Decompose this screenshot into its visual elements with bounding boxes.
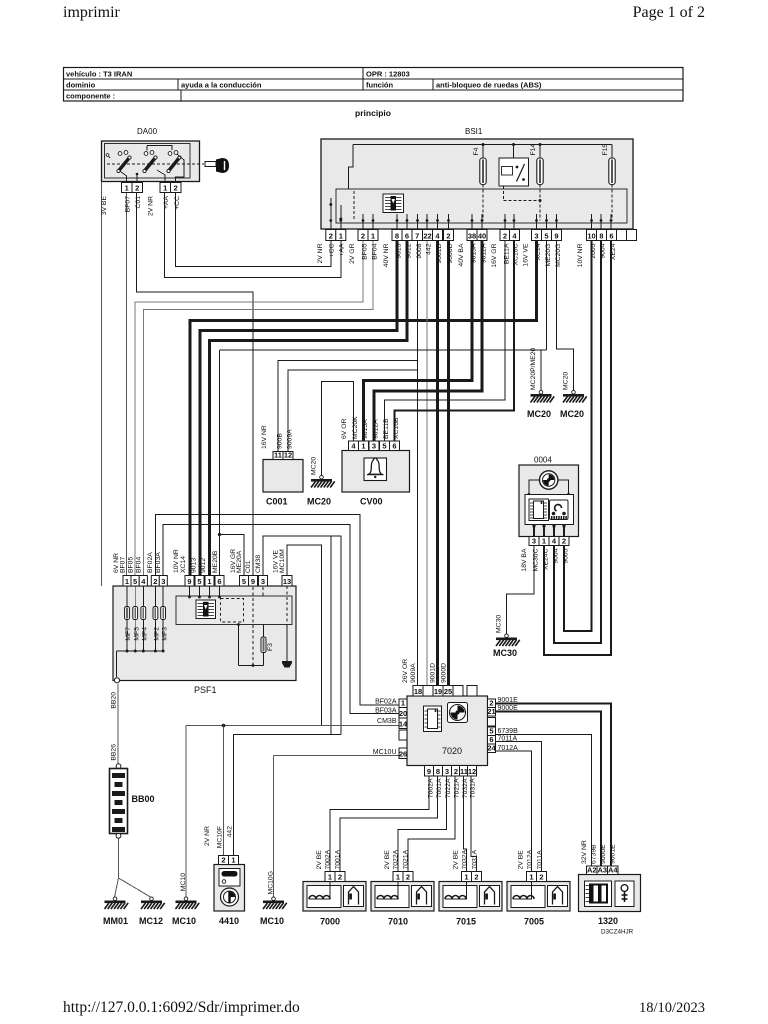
svg-text:MC10G: MC10G (268, 871, 275, 894)
wire MC10M : PSF1 pin13 to 7020 CM3B (287, 545, 322, 726)
svg-text:MM01: MM01 (103, 916, 128, 926)
svg-text:9012: 9012 (406, 243, 413, 258)
wire BF03A : PSF1 pin3 to 7020 pin20 (163, 525, 399, 714)
svg-text:1: 1 (231, 855, 235, 864)
svg-text:25: 25 (444, 687, 452, 696)
svg-text:MF2: MF2 (154, 627, 161, 641)
svg-text:7005: 7005 (524, 917, 544, 927)
1320 sensor icon (615, 881, 634, 907)
wire BF02A : PSF1 pin2 to 7020 pin1 (155, 515, 399, 706)
svg-text:+CC: +CC (174, 196, 181, 210)
svg-text:1: 1 (125, 183, 129, 192)
svg-text:C001: C001 (266, 497, 288, 507)
svg-text:XE24C: XE24C (543, 548, 550, 570)
svg-text:MC10: MC10 (180, 873, 187, 891)
svg-text:D3CZ4HJR: D3CZ4HJR (601, 929, 634, 936)
svg-text:3: 3 (261, 577, 265, 586)
svg-text:dominio: dominio (66, 81, 96, 90)
svg-text:CV00: CV00 (360, 497, 383, 507)
svg-text:BF07: BF07 (120, 557, 127, 573)
svg-text:BB26: BB26 (111, 744, 118, 761)
svg-text:DA00: DA00 (137, 127, 158, 136)
svg-text:9012A: 9012A (481, 243, 488, 263)
svg-text:BE11A: BE11A (504, 243, 511, 264)
svg-text:6739B: 6739B (591, 844, 598, 864)
svg-text:9001D: 9001D (430, 663, 437, 683)
7020 left pins (399, 699, 407, 708)
connector C001 body (263, 460, 303, 493)
svg-text:7032A: 7032A (462, 849, 469, 869)
svg-text:7022A: 7022A (445, 778, 452, 798)
DA00 key-barrel dashed axis (107, 163, 204, 165)
svg-text:10V NR: 10V NR (173, 549, 180, 573)
7020 top pins (413, 686, 423, 697)
wire battery to grounds MM01/MC12 (118, 838, 120, 878)
svg-text:2: 2 (135, 183, 139, 192)
svg-text:1: 1 (361, 441, 365, 450)
svg-text:9000E: 9000E (498, 705, 519, 712)
svg-text:ME20G: ME20G (545, 244, 552, 267)
wire ME20A : PSF1 pin5 stub (220, 535, 245, 576)
svg-text:8: 8 (395, 231, 399, 240)
wire BF04 : BSI1 to PSF1 pin4 (143, 241, 373, 576)
wire 9013 : BSI1 pin8 to PSF1 pin5 (200, 241, 397, 576)
ignition switch DA00 body (102, 141, 200, 182)
svg-text:5: 5 (133, 577, 137, 586)
svg-text:9001D: 9001D (436, 243, 443, 263)
wire 7002A : 7020 pin9 to 7000 pin1 (330, 776, 429, 872)
svg-text:9013A: 9013A (362, 419, 369, 439)
svg-text:7002A: 7002A (325, 849, 332, 869)
wire 9013A : CV00 pin1 to BSI1 pin38 (364, 241, 473, 442)
svg-text:11: 11 (274, 450, 282, 459)
PSF1 fuse F3 (263, 625, 265, 638)
svg-text:2V BE: 2V BE (384, 850, 391, 870)
svg-text:MC30: MC30 (493, 648, 517, 658)
PSF1 inner relay module (176, 596, 292, 625)
ground MC12 (141, 897, 165, 909)
svg-text:2: 2 (562, 536, 566, 545)
svg-text:ME20A: ME20A (236, 550, 243, 573)
svg-text:1: 1 (542, 536, 546, 545)
svg-text:2: 2 (446, 231, 450, 240)
svg-text:7021A: 7021A (403, 849, 410, 869)
wire 9000D : BSI1 pin2 to 7020 pin25 (447, 241, 450, 686)
svg-text:MF7: MF7 (125, 627, 132, 641)
wire 9001E : 7020 pin2 to 1320 pinA4 (496, 704, 612, 867)
PSF1 pin row (123, 576, 131, 587)
wire MC30C : 0004 pin3 to ground MC30 (507, 546, 535, 635)
svg-text:2V BE: 2V BE (316, 850, 323, 870)
svg-text:7032A: 7032A (462, 778, 469, 798)
svg-text:14: 14 (399, 719, 408, 728)
BSI1 fuse F14 (539, 145, 541, 159)
ground MM01 (105, 897, 129, 909)
svg-text:40V BA: 40V BA (458, 243, 465, 267)
wire 9009A : C001 pin12 to node (288, 370, 418, 452)
battery BB00 (116, 764, 121, 769)
svg-text:MC10M: MC10M (279, 549, 286, 573)
PSF1 fuses MF7 MF5 MF4 MF2 MF3 (126, 586, 128, 607)
svg-text:1: 1 (125, 577, 129, 586)
svg-text:MF3: MF3 (161, 627, 168, 641)
svg-text:2: 2 (406, 872, 410, 881)
DA00 key icon (205, 162, 216, 167)
DA00 internal wiring (120, 171, 127, 182)
engine fusebox PSF1 body (113, 586, 296, 681)
svg-text:MC12: MC12 (139, 916, 163, 926)
svg-text:7022A: 7022A (393, 849, 400, 869)
svg-text:Page 1 of 2: Page 1 of 2 (633, 4, 705, 21)
svg-text:BF03A: BF03A (375, 708, 397, 715)
svg-text:+AA: +AA (163, 196, 170, 210)
ECU 1320 body (579, 875, 641, 912)
svg-text:MC20: MC20 (563, 372, 570, 390)
svg-text:442: 442 (426, 243, 433, 255)
svg-text:21: 21 (487, 707, 495, 716)
fuse (609, 158, 615, 185)
svg-text:ayuda a la conducción: ayuda a la conducción (181, 81, 262, 90)
svg-text:442: 442 (227, 826, 234, 838)
wheel sensor 7015 (462, 872, 472, 882)
svg-text:2: 2 (221, 855, 225, 864)
wire XE24 : BSI1 pin6 to 0004 pin1 loop (544, 241, 611, 656)
svg-text:3: 3 (161, 577, 165, 586)
svg-text:7020: 7020 (442, 746, 462, 756)
fuse (537, 158, 543, 185)
svg-text:10: 10 (587, 231, 595, 240)
svg-text:8: 8 (599, 231, 603, 240)
svg-text:26: 26 (399, 749, 407, 758)
svg-text:2: 2 (539, 872, 543, 881)
wire XC14 : BSI1 pin3 to PSF1 pin9 (190, 241, 537, 576)
svg-text:1: 1 (529, 872, 533, 881)
svg-text:2: 2 (329, 231, 333, 240)
wire BB20 : PSF1 to battery BB00 (117, 684, 119, 766)
PSF1 internal dashed pins (252, 587, 254, 666)
svg-text:BB00: BB00 (132, 794, 155, 804)
svg-text:XC16C: XC16C (513, 243, 520, 265)
svg-text:BF02A: BF02A (375, 699, 397, 706)
svg-text:F15: F15 (602, 144, 609, 156)
svg-text:9004: 9004 (553, 548, 560, 563)
svg-text:7015: 7015 (456, 917, 476, 927)
svg-text:7021A: 7021A (454, 778, 461, 798)
7020 right pins (488, 699, 496, 708)
svg-text:9013A: 9013A (471, 243, 478, 263)
wire 7011A : 7020 to 7005 pin2 (496, 742, 542, 872)
svg-text:6: 6 (217, 577, 221, 586)
svg-text:13: 13 (283, 577, 291, 586)
wheel sensor 7005 (527, 872, 537, 882)
svg-text:9: 9 (427, 767, 431, 776)
svg-text:BE11B: BE11B (383, 418, 390, 439)
svg-text:7001A: 7001A (335, 849, 342, 869)
svg-text:F3: F3 (267, 643, 274, 651)
svg-text:MC20K: MC20K (352, 416, 359, 439)
svg-text:CM3B: CM3B (377, 718, 397, 725)
svg-text:función: función (366, 81, 393, 90)
svg-text:16V GR: 16V GR (491, 243, 498, 267)
wheel sensor 7005 body (507, 882, 570, 912)
0004 chip icon (529, 499, 549, 521)
svg-text:5: 5 (382, 441, 386, 450)
ABS ECU 7020 body (407, 696, 488, 766)
ground MC30 (496, 634, 520, 646)
ground MC10G (263, 897, 287, 909)
svg-text:6: 6 (609, 231, 613, 240)
0004 pin stubs (533, 525, 535, 537)
svg-text:32V NR: 32V NR (581, 840, 588, 864)
svg-text:A4: A4 (608, 865, 618, 874)
info table (64, 68, 684, 102)
svg-text:BF05: BF05 (128, 557, 135, 573)
svg-text:9000D: 9000D (441, 663, 448, 683)
wire MC10F : drop to 4410 (223, 726, 225, 856)
body control unit BSI1 body (321, 139, 633, 229)
0004 gong icon (540, 471, 558, 489)
svg-text:9: 9 (187, 577, 191, 586)
svg-text:8: 8 (436, 767, 440, 776)
BSI1 fuse F4 (482, 145, 484, 159)
svg-text:5: 5 (242, 577, 246, 586)
svg-text:XC14: XC14 (535, 243, 542, 260)
svg-text:7002A: 7002A (428, 778, 435, 798)
svg-text:7001A: 7001A (436, 778, 443, 798)
PSF1 internal ground (286, 586, 288, 625)
wire C01 : DA00 pin2 to PSF1 pin9 (137, 193, 254, 576)
wire MC10 : ground MC10 run to 7020 / 4410 (186, 725, 399, 727)
CV00 bell icon (364, 458, 387, 481)
4410 keyswitch dial icon (221, 888, 239, 906)
wire MC20G : BSI1 pin9 to ground MC20 (557, 241, 574, 393)
svg-text:BF05: BF05 (362, 243, 369, 259)
PSF1 internal bus to battery node (117, 650, 164, 652)
wire 7012A : 7020 to 7005 pin1 (496, 751, 532, 872)
BSI1 inner module (336, 189, 627, 223)
svg-text:2: 2 (454, 767, 458, 776)
svg-text:26V OR: 26V OR (402, 659, 409, 683)
ground MC10 (176, 897, 200, 909)
svg-text:19: 19 (434, 687, 442, 696)
svg-text:6: 6 (392, 441, 396, 450)
svg-text:9001E: 9001E (610, 844, 617, 864)
wire 9012A : CV00 pin3 to BSI1 pin40 (374, 241, 482, 442)
svg-text:http://127.0.0.1:6092/Sdr/impr: http://127.0.0.1:6092/Sdr/imprimer.do (63, 999, 300, 1016)
DA00 switch contact (169, 158, 180, 172)
svg-text:900B: 900B (277, 433, 284, 449)
instrument cluster 0004 body (519, 465, 579, 537)
svg-text:6: 6 (405, 231, 409, 240)
DA00 inner frame (105, 144, 191, 179)
svg-text:9012: 9012 (200, 558, 207, 573)
svg-text:9008: 9008 (416, 243, 423, 258)
wheel sensor 7010 (393, 872, 403, 882)
node BB20 terminal (114, 678, 119, 683)
svg-text:3V BE: 3V BE (101, 196, 108, 216)
svg-text:11: 11 (460, 767, 468, 776)
svg-text:12: 12 (468, 767, 476, 776)
wire +CC : DA00 to BSI1 pin2 (176, 193, 331, 267)
svg-text:6V OR: 6V OR (341, 419, 348, 439)
svg-text:18V BA: 18V BA (521, 548, 528, 572)
wire BE11B/BE11A : CV00 pin5 to BSI1 pin2 (385, 241, 506, 442)
wire DA00 feed to PSF1 top-left (101, 182, 103, 587)
svg-text:16V NR: 16V NR (261, 425, 268, 449)
svg-text:2: 2 (153, 577, 157, 586)
ground MC20 (mid) (311, 475, 335, 487)
svg-text:1: 1 (371, 231, 375, 240)
wire 9004 : BSI1 pin8 to 0004 pin4 loop (554, 241, 601, 644)
4410 connector bar icon (219, 869, 240, 887)
svg-text:9000E: 9000E (600, 844, 607, 864)
svg-text:vehículo : T3 IRAN: vehículo : T3 IRAN (66, 70, 132, 79)
svg-text:BF02A: BF02A (147, 552, 154, 573)
svg-text:3: 3 (445, 767, 449, 776)
svg-text:4410: 4410 (219, 916, 239, 926)
svg-text:18: 18 (414, 687, 422, 696)
svg-text:MC30: MC30 (496, 615, 503, 633)
svg-text:BF03A: BF03A (155, 552, 162, 573)
0004 internal wires (529, 480, 540, 495)
svg-text:9005: 9005 (563, 548, 570, 563)
0004 inner module (525, 495, 574, 525)
svg-text:40: 40 (478, 231, 486, 240)
wire XC16B/XC16C : CV00 pin6 to BSI1 pin4 (395, 241, 515, 442)
svg-text:3: 3 (532, 536, 536, 545)
svg-text:C01: C01 (245, 560, 252, 573)
svg-text:7011A: 7011A (498, 736, 518, 743)
wire 9012 : BSI1 pin6 to PSF1 pin1 (210, 241, 408, 576)
svg-text:24: 24 (487, 743, 496, 752)
svg-text:16V VE: 16V VE (523, 243, 530, 267)
1320 chip icon (585, 881, 612, 907)
BSI1 pin row (326, 230, 336, 241)
svg-text:XC16B: XC16B (393, 417, 400, 439)
svg-text:7011A: 7011A (537, 850, 544, 870)
svg-text:XC14: XC14 (180, 556, 187, 573)
BSI1 internal rail (353, 144, 612, 146)
svg-text:MF4: MF4 (142, 627, 149, 641)
svg-text:MC30C: MC30C (533, 548, 540, 571)
7020 pump icon (448, 703, 468, 723)
svg-text:BF04: BF04 (136, 557, 143, 573)
wire BF07 : DA00 pin1 to PSF1 pin1 (126, 193, 128, 576)
wire 7022A : 7020 pin3 to 7010 pin1 (398, 776, 447, 872)
svg-text:2: 2 (174, 183, 178, 192)
wire CM38/442 : PSF1 pin3 to 4410 (263, 536, 341, 735)
ground MC20 (right) (563, 390, 587, 402)
svg-text:F14: F14 (530, 144, 537, 156)
svg-text:+CC: +CC (329, 243, 336, 257)
svg-text:1: 1 (328, 872, 332, 881)
svg-text:7: 7 (415, 231, 419, 240)
svg-text:XE24: XE24 (610, 243, 617, 260)
BSI1 relay (513, 145, 515, 159)
svg-text:5: 5 (197, 577, 201, 586)
svg-text:5: 5 (544, 231, 548, 240)
svg-text:1320: 1320 (598, 916, 618, 926)
wire BF05 : BSI1 to PSF1 pin5 (135, 241, 363, 576)
svg-text:12: 12 (284, 450, 292, 459)
PSF1 internal pin dots (189, 586, 191, 597)
svg-text:22: 22 (423, 231, 431, 240)
svg-text:PSF1: PSF1 (194, 685, 217, 695)
svg-text:CM38: CM38 (255, 555, 262, 573)
svg-text:A3: A3 (597, 865, 607, 874)
svg-text:0004: 0004 (534, 456, 552, 465)
buzzer CV00 body (342, 451, 410, 493)
svg-text:MF5: MF5 (133, 627, 140, 641)
svg-text:OPR : 12803: OPR : 12803 (366, 70, 410, 79)
svg-text:MC20: MC20 (527, 409, 551, 419)
svg-text:3: 3 (372, 441, 376, 450)
svg-text:1: 1 (339, 231, 343, 240)
svg-text:7031A: 7031A (472, 849, 479, 869)
wire MC10G : ground to 7020 MC10U (274, 755, 400, 757)
svg-text:2V GR: 2V GR (349, 243, 356, 263)
svg-text:2V NR: 2V NR (317, 243, 324, 263)
BSI1 +CC/+AA internal stubs (330, 198, 332, 221)
svg-text:1: 1 (396, 872, 400, 881)
wheel sensor 7000 (325, 872, 335, 882)
svg-text:10V NR: 10V NR (577, 243, 584, 267)
wire ME20G : BSI1 pin5 to ME20 run (546, 241, 548, 351)
svg-text:7012A: 7012A (527, 849, 534, 869)
svg-text:9: 9 (554, 231, 558, 240)
DA00 pins (122, 183, 133, 193)
svg-text:1: 1 (464, 872, 468, 881)
svg-text:BF04: BF04 (372, 243, 379, 259)
PSF1 internal connector icon (196, 600, 216, 619)
fuse (480, 158, 486, 185)
svg-text:1: 1 (207, 577, 211, 586)
svg-text:9013: 9013 (191, 558, 198, 573)
svg-text:BSI1: BSI1 (465, 127, 483, 136)
svg-text:MC10: MC10 (172, 916, 196, 926)
wire 9008/9009A : BSI1 pin7 down to 7020 pin18 (417, 241, 419, 686)
svg-text:7012A: 7012A (498, 745, 519, 752)
svg-text:40V NR: 40V NR (383, 243, 390, 267)
ground MC20P/ME20 (531, 390, 555, 402)
wire 9000E : 7020 pin21 to 1320 pinA3 (496, 712, 602, 867)
svg-text:7010: 7010 (388, 917, 408, 927)
wire MC20K : CV00 pin4 to ground MC20 (322, 382, 354, 476)
diagnostic socket 4410 body (214, 865, 245, 912)
PSF1 dashed relay slot (221, 599, 244, 623)
svg-text:2V BE: 2V BE (453, 850, 460, 870)
svg-text:9: 9 (251, 577, 255, 586)
svg-text:7031A: 7031A (470, 778, 477, 798)
svg-text:MC10: MC10 (260, 916, 284, 926)
svg-text:6739B: 6739B (498, 728, 519, 735)
wire 7001A : 7020 pin8 to 7000 pin2 (340, 776, 438, 872)
svg-text:1: 1 (401, 698, 405, 707)
svg-text:38: 38 (468, 231, 476, 240)
wheel sensor 7000 body (303, 882, 366, 912)
wheel sensor 7015 body (439, 882, 502, 912)
svg-text:2005: 2005 (590, 243, 597, 258)
svg-text:MC20: MC20 (311, 457, 318, 475)
svg-text:MC20: MC20 (560, 409, 584, 419)
svg-text:2: 2 (503, 231, 507, 240)
DA00 switch contact (119, 158, 130, 172)
wire 9001D : BSI1 pin4 to 7020 pin19 (436, 241, 439, 686)
svg-text:7000: 7000 (320, 917, 340, 927)
svg-text:componente :: componente : (66, 92, 115, 101)
svg-text:9009A: 9009A (410, 663, 417, 683)
svg-text:9000D: 9000D (447, 243, 454, 263)
